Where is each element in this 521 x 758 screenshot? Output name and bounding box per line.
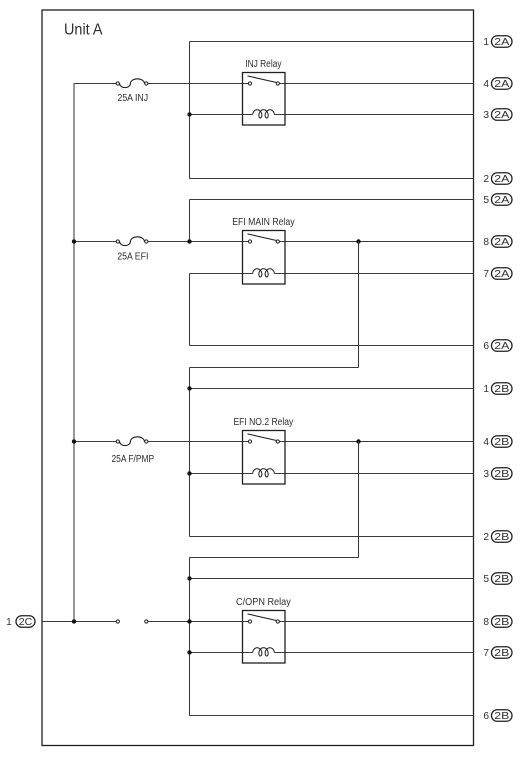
svg-text:INJ Relay: INJ Relay <box>245 59 281 70</box>
svg-text:2: 2 <box>483 174 489 185</box>
relay EFI MAIN: box <box>243 231 286 285</box>
svg-text:25A EFI: 25A EFI <box>117 251 148 262</box>
wire: left supply bus vertical <box>73 84 75 622</box>
wire: C/OPN coil line left <box>190 652 253 654</box>
svg-text:2A: 2A <box>494 195 509 206</box>
relay EFI NO.2: coil <box>253 469 275 477</box>
relay C/OPN: box <box>243 611 286 664</box>
wire: pin 1(2B) line <box>190 388 474 390</box>
junction: pin 1(2B) / vertical <box>187 386 191 390</box>
relay INJ: switch blade <box>248 76 277 83</box>
svg-text:1: 1 <box>483 384 489 395</box>
svg-text:2A: 2A <box>494 237 509 248</box>
open contact: right terminal circle <box>145 620 148 623</box>
fuse F1: element <box>120 79 145 88</box>
connector oval 2C for pin 1 <box>16 616 35 628</box>
relay EFI NO.2: box <box>243 431 286 485</box>
wire: mid-left vertical (y368-y536) <box>189 368 191 537</box>
wire: pin 2(2A) line <box>190 178 474 180</box>
wire: pin 6(2B) line <box>190 715 474 717</box>
relay INJ: box <box>243 73 286 126</box>
wire: INJ left vertical (1-2A to 2-2A) <box>189 42 191 179</box>
svg-text:2A: 2A <box>494 341 509 352</box>
junction: bus end / 1(2C) line <box>72 619 76 623</box>
svg-text:7: 7 <box>483 648 489 659</box>
relay EFI MAIN: switch blade <box>248 234 277 241</box>
svg-text:2B: 2B <box>494 469 509 480</box>
wire: bus to INJ fuse <box>74 83 116 85</box>
svg-text:2B: 2B <box>494 574 509 585</box>
wire: EFI NO.2 coil to pin 3(2B) <box>274 473 473 475</box>
wire: lower-left vertical (y558-y716) <box>189 558 191 716</box>
fuse F3: right terminal circle <box>145 440 148 443</box>
svg-text:3: 3 <box>483 469 489 480</box>
wire: C/OPN coil to pin 7(2B) <box>274 652 473 654</box>
relay INJ: coil <box>253 110 275 118</box>
relay EFI NO.2: switch left contact circle <box>248 440 251 443</box>
wire: EFI MAIN upper-left vertical <box>189 200 191 242</box>
svg-text:2C: 2C <box>19 617 33 628</box>
svg-text:4: 4 <box>483 79 489 90</box>
relay EFI MAIN: switch right contact circle <box>276 240 279 243</box>
svg-text:2B: 2B <box>494 384 509 395</box>
relay C/OPN: switch left contact circle <box>248 620 251 623</box>
fuse F2: element <box>120 237 145 246</box>
junction: pin 5(2B) / vertical <box>187 576 191 580</box>
junction: EFI NO.2 switch line / right vertical <box>356 439 360 443</box>
junction: bus / F-PMP fuse line <box>72 439 76 443</box>
svg-text:2B: 2B <box>494 437 509 448</box>
svg-text:25A F/PMP: 25A F/PMP <box>112 454 155 465</box>
svg-text:2B: 2B <box>494 532 509 543</box>
fuse F3: left terminal circle <box>116 440 119 443</box>
svg-text:C/OPN Relay: C/OPN Relay <box>236 597 291 608</box>
wire: horizontal link y368 <box>190 367 359 369</box>
svg-text:7: 7 <box>483 269 489 280</box>
svg-text:6: 6 <box>483 711 489 722</box>
svg-text:1: 1 <box>6 617 12 628</box>
wire: pin 5(2B) line <box>190 578 474 580</box>
junction: C/OPN switch line / vertical <box>187 619 191 623</box>
fuse F3: element <box>120 437 145 446</box>
relay INJ: switch right contact circle <box>276 82 279 85</box>
wire: bus to EFI fuse <box>74 241 116 243</box>
wire: INJ coil line left <box>190 114 253 116</box>
svg-text:6: 6 <box>483 341 489 352</box>
svg-text:1: 1 <box>483 37 489 48</box>
relay EFI NO.2: switch right contact circle <box>276 440 279 443</box>
svg-text:2: 2 <box>483 532 489 543</box>
fuse F2: left terminal circle <box>116 240 119 243</box>
wire: INJ fuse to relay switch <box>148 83 248 85</box>
svg-text:4: 4 <box>483 437 489 448</box>
svg-text:5: 5 <box>483 195 489 206</box>
wire: EFI NO.2 coil line left <box>190 473 253 475</box>
wire: EFI NO.2 switch to pin 4(2B) <box>280 441 474 443</box>
wire: EFI MAIN switch to pin 8(2A) <box>280 241 474 243</box>
wire: right vertical from 4(2B) line down <box>358 442 360 558</box>
wire: right vertical from 8(2A) line down <box>358 242 360 368</box>
fuse F2: right terminal circle <box>145 240 148 243</box>
wire: pin 2(2B) line <box>190 536 474 538</box>
svg-text:25A INJ: 25A INJ <box>117 93 148 104</box>
relay EFI NO.2: switch blade <box>248 434 277 441</box>
wire: EFI MAIN coil line left <box>190 273 253 275</box>
wire: C/OPN switch to pin 8(2B) <box>280 621 474 623</box>
wire: EFI MAIN coil to pin 7(2A) <box>274 273 473 275</box>
wire: pin 6(2A) line <box>190 345 474 347</box>
relay EFI MAIN: coil <box>253 269 275 277</box>
relay INJ: switch left contact circle <box>248 82 251 85</box>
junction: C/OPN coil / vertical <box>187 650 191 654</box>
wire: pin 1(2A) line <box>190 41 474 43</box>
svg-text:5: 5 <box>483 574 489 585</box>
svg-text:2B: 2B <box>494 648 509 659</box>
relay C/OPN: switch right contact circle <box>276 620 279 623</box>
relay C/OPN: coil <box>253 648 275 656</box>
junction: EFI MAIN switch line / right vertical <box>356 239 360 243</box>
svg-text:8: 8 <box>483 617 489 628</box>
svg-text:Unit A: Unit A <box>64 22 103 39</box>
wire: INJ coil to pin 3(2A) <box>274 114 473 116</box>
junction: EFI NO.2 coil / vertical <box>187 471 191 475</box>
svg-text:2A: 2A <box>494 79 509 90</box>
svg-text:2A: 2A <box>494 37 509 48</box>
svg-text:2A: 2A <box>494 269 509 280</box>
svg-text:2B: 2B <box>494 617 509 628</box>
wire: F/PMP fuse to relay switch <box>148 441 248 443</box>
relay C/OPN: switch blade <box>248 614 277 621</box>
junction: INJ coil / vertical <box>187 112 191 116</box>
junction: EFI MAIN switch line / left vertical <box>187 239 191 243</box>
wire: pin 5(2A) line <box>190 199 474 201</box>
wire: horizontal link y558 <box>190 557 359 559</box>
svg-text:EFI NO.2 Relay: EFI NO.2 Relay <box>233 417 293 428</box>
svg-text:8: 8 <box>483 237 489 248</box>
svg-text:2A: 2A <box>494 174 509 185</box>
svg-text:3: 3 <box>483 110 489 121</box>
wire: INJ switch to pin 4(2A) <box>280 83 474 85</box>
junction: bus / EFI fuse line <box>72 239 76 243</box>
wire: EFI MAIN lower-left vertical <box>189 274 191 346</box>
wire: contact to C/OPN relay switch <box>148 621 248 623</box>
svg-text:EFI MAIN Relay: EFI MAIN Relay <box>232 217 294 228</box>
open contact: left terminal circle <box>116 620 119 623</box>
wire: bus to F/PMP fuse <box>74 441 116 443</box>
svg-text:2A: 2A <box>494 110 509 121</box>
fuse F1: right terminal circle <box>145 82 148 85</box>
wire: EFI fuse to relay switch <box>148 241 248 243</box>
svg-text:2B: 2B <box>494 711 509 722</box>
fuse F1: left terminal circle <box>116 82 119 85</box>
wire: pin 1(2C) line from border <box>42 621 116 623</box>
relay EFI MAIN: switch left contact circle <box>248 240 251 243</box>
